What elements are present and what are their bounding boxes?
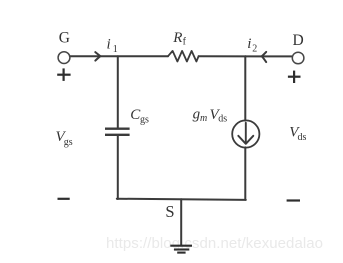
svg-text:https://blog.csdn.net/kexuedal: https://blog.csdn.net/kexuedalao: [106, 235, 323, 252]
svg-text:gs: gs: [140, 114, 149, 125]
svg-text:S: S: [165, 202, 174, 221]
svg-text:m: m: [200, 113, 207, 124]
svg-text:i: i: [107, 37, 111, 53]
svg-text:gs: gs: [64, 137, 73, 148]
svg-text:2: 2: [252, 44, 257, 55]
svg-text:1: 1: [113, 44, 118, 55]
svg-text:ds: ds: [298, 132, 307, 143]
svg-text:R: R: [172, 30, 182, 46]
svg-text:ds: ds: [218, 114, 227, 125]
svg-text:i: i: [247, 36, 251, 52]
svg-text:G: G: [59, 29, 70, 46]
svg-text:D: D: [293, 32, 304, 49]
